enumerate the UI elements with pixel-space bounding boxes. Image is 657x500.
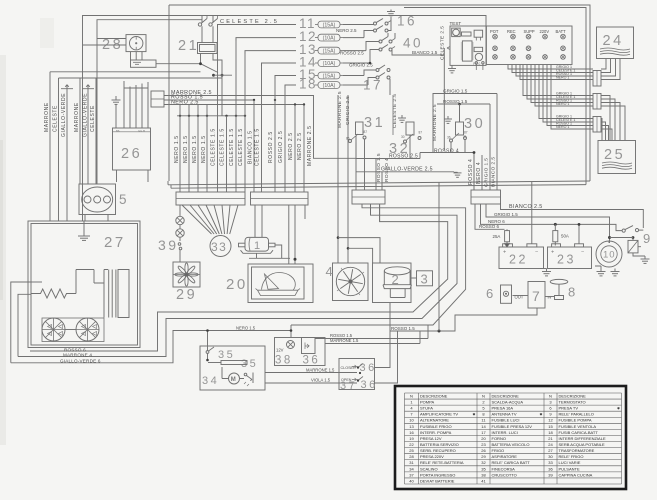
relay 21 contacts: [198, 23, 201, 26]
svg-text:CELESTE 1.5: CELESTE 1.5: [211, 128, 217, 166]
svg-text:+: +: [551, 250, 554, 256]
relay 9 switch: [622, 229, 625, 232]
socket 5: [79, 184, 116, 215]
svg-text:RELE' FRIGO: RELE' FRIGO: [559, 454, 584, 459]
box 27 outer: [28, 221, 140, 348]
wires relays to strip S3: [356, 139, 382, 190]
svg-text:GG B: GG B: [138, 129, 145, 133]
svg-text:37: 37: [340, 380, 357, 392]
svg-text:RELE' PARALLELO: RELE' PARALLELO: [559, 412, 594, 417]
connector strip S1: [176, 192, 245, 205]
svg-text:BIANCO 2.5: BIANCO 2.5: [491, 157, 497, 187]
socket 28 outline: [126, 35, 146, 52]
svg-text:10: 10: [409, 418, 414, 423]
svg-text:(10A): (10A): [323, 35, 336, 41]
svg-text:GIALLO-VERDE: GIALLO-VERDE: [83, 93, 89, 137]
TEST panel innards: [452, 28, 461, 36]
svg-text:12: 12: [548, 418, 553, 423]
svg-text:27: 27: [548, 448, 553, 453]
svg-text:FUSIBILE LUCI: FUSIBILE LUCI: [492, 418, 520, 423]
scan artifacts background: [0, 55, 6, 445]
bridge rectifier 2: [76, 318, 99, 341]
svg-text:18: 18: [299, 77, 317, 92]
svg-text:M: M: [231, 377, 236, 383]
svg-text:MARRONE: MARRONE: [44, 102, 50, 132]
wires relay30 area to strip S4: [481, 155, 483, 190]
connector T-bars left columns: [61, 85, 73, 89]
svg-text:FUSIBILE POMPA: FUSIBILE POMPA: [559, 418, 592, 423]
svg-text:33: 33: [211, 240, 227, 254]
wire relay30 down: [451, 140, 465, 153]
svg-text:INTERR. POMPA: INTERR. POMPA: [420, 430, 452, 435]
svg-text:(10A): (10A): [323, 61, 336, 67]
svg-text:DESCRIZIONE: DESCRIZIONE: [559, 393, 587, 398]
svg-text:NERO 1.5: NERO 1.5: [201, 135, 207, 163]
svg-text:50A: 50A: [561, 234, 569, 239]
component 2 boiler: [384, 267, 410, 275]
showerhead 8: [550, 279, 568, 284]
svg-text:FINECORSA: FINECORSA: [492, 466, 516, 471]
svg-text:SERB ACQUA POTABILE: SERB ACQUA POTABILE: [559, 442, 605, 447]
svg-text:ROSSO 1.5: ROSSO 1.5: [443, 99, 468, 104]
svg-text:39: 39: [548, 472, 553, 477]
svg-text:FUSIBILE PRESA 12V: FUSIBILE PRESA 12V: [492, 424, 533, 429]
wire fuse13 to sw40: [343, 42, 379, 51]
wire frame bottom inner: [168, 181, 590, 188]
connector strip S4: [471, 190, 501, 204]
box 3: [417, 271, 433, 286]
svg-text:PRESA 16A: PRESA 16A: [492, 406, 514, 411]
svg-text:PRESA 220V: PRESA 220V: [420, 454, 444, 459]
svg-text:+: +: [503, 250, 506, 256]
switch 40: [379, 40, 382, 43]
wires box37 right: [375, 303, 391, 368]
svg-text:16: 16: [397, 14, 417, 29]
svg-text:CELESTE 1.5: CELESTE 1.5: [220, 128, 226, 166]
switch 34 right: [244, 373, 247, 376]
svg-text:31: 31: [409, 460, 414, 465]
box 24: [597, 27, 634, 59]
connector group 1: [593, 71, 601, 87]
svg-text:BATTERIA VEICOLO: BATTERIA VEICOLO: [492, 442, 530, 447]
box 20 forno: [248, 264, 313, 303]
svg-text:2: 2: [392, 272, 402, 287]
wire left top bus y=78: [59, 77, 223, 79]
svg-text:DESCRIZIONE: DESCRIZIONE: [420, 393, 448, 398]
svg-text:BIANCO 1.5: BIANCO 1.5: [248, 130, 254, 164]
svg-text:220V: 220V: [540, 29, 550, 34]
ground giallo-verde: [457, 171, 459, 174]
component 1 tray: [241, 250, 274, 253]
wire mains left outer: [83, 16, 487, 222]
box 4 fan: [333, 263, 369, 301]
wires panel to connector groups: [508, 65, 593, 70]
svg-text:LUCI VARIE: LUCI VARIE: [559, 460, 581, 465]
wire battery22 right up: [531, 182, 533, 244]
svg-text:38: 38: [481, 472, 486, 477]
terminal panel screws: [493, 34, 498, 39]
wires to cylinder 2 enclosure: [337, 236, 340, 239]
svg-text:23: 23: [481, 442, 486, 447]
svg-text:VIOLA 1.5: VIOLA 1.5: [311, 377, 331, 382]
wires S2 drop group: [304, 205, 306, 219]
switch arrows in 37: [352, 365, 357, 368]
svg-text:20: 20: [226, 276, 248, 293]
svg-text:8: 8: [568, 285, 578, 300]
svg-text:N: N: [410, 393, 413, 398]
wire wrap inner diag: [291, 205, 466, 325]
svg-text:36: 36: [361, 379, 378, 391]
svg-text:NERO 1.5: NERO 1.5: [174, 135, 180, 163]
wires S2 to component 1: [255, 205, 262, 237]
svg-text:25A: 25A: [493, 234, 501, 239]
svg-text:GIALLO-VERDE: GIALLO-VERDE: [61, 93, 67, 137]
svg-text:BIANCO 1.5: BIANCO 1.5: [412, 50, 438, 55]
svg-text:RELE' CARICA BATT: RELE' CARICA BATT: [492, 460, 531, 465]
svg-text:25: 25: [604, 147, 625, 163]
svg-text:GRIGIO 2.5: GRIGIO 2.5: [349, 63, 373, 68]
svg-text:ALTERNATORE: ALTERNATORE: [420, 418, 449, 423]
svg-text:MARRONE 2.5: MARRONE 2.5: [307, 126, 313, 167]
svg-text:21: 21: [178, 38, 199, 54]
svg-text:22: 22: [409, 442, 414, 447]
svg-text:41: 41: [481, 478, 486, 483]
connector strip S3: [352, 190, 385, 204]
svg-text:34: 34: [409, 466, 414, 471]
socket 28 face: [130, 37, 143, 50]
svg-text:MARRONE: MARRONE: [74, 102, 80, 132]
svg-text:33: 33: [548, 460, 553, 465]
svg-text:GRIGIO 1.5: GRIGIO 1.5: [484, 158, 490, 187]
svg-text:31: 31: [364, 115, 385, 131]
svg-text:GIALLO-VERDE 6: GIALLO-VERDE 6: [60, 358, 101, 363]
svg-text:CRUSCOTTO: CRUSCOTTO: [492, 472, 517, 477]
battery 22: [499, 247, 544, 269]
fuse 50A: [553, 231, 558, 242]
svg-text:BIANCO 2.5: BIANCO 2.5: [509, 204, 543, 210]
legend table frame: [395, 386, 626, 489]
bridge rectifier 1: [42, 318, 65, 341]
connector strip S2: [251, 192, 309, 205]
svg-text:B6: B6: [116, 129, 120, 133]
svg-text:23: 23: [557, 253, 576, 267]
connector 3pole: [151, 91, 164, 107]
ground above 26: [115, 96, 117, 100]
svg-text:FUSIBILE VENTOLA: FUSIBILE VENTOLA: [559, 424, 597, 429]
svg-text:1: 1: [254, 240, 260, 252]
svg-text:DESCRIZIONE: DESCRIZIONE: [492, 393, 520, 398]
svg-text:29: 29: [481, 454, 486, 459]
ground relay 9: [644, 256, 646, 259]
connector group 2: [593, 94, 601, 110]
svg-text:SERB. RECUPERO: SERB. RECUPERO: [420, 448, 456, 453]
svg-text:36: 36: [303, 355, 321, 367]
wire bundle verticals: [179, 105, 181, 193]
svg-text:BATT: BATT: [556, 29, 567, 34]
svg-text:34: 34: [202, 375, 219, 387]
wire feed y104.5: [164, 104, 304, 106]
box 26: [113, 128, 151, 170]
box 34 35: [200, 346, 265, 390]
svg-text:18: 18: [548, 430, 553, 435]
svg-text:MARRONE 2.5: MARRONE 2.5: [432, 104, 438, 141]
fuse 14 (10A): [318, 60, 340, 67]
wire sw17 down: [389, 79, 391, 95]
relay 21 switch wire: [201, 54, 219, 73]
svg-text:26: 26: [121, 146, 142, 162]
svg-text:ROSSO 6: ROSSO 6: [479, 224, 500, 229]
svg-text:(15A): (15A): [323, 48, 336, 54]
ground switch 16: [390, 10, 392, 12]
wires box 26 top: [123, 88, 125, 128]
svg-text:36: 36: [447, 136, 451, 140]
svg-text:ROSSO 2.5: ROSSO 2.5: [340, 51, 364, 56]
svg-text:27: 27: [104, 234, 126, 251]
wire socket28 shelf right: [156, 63, 201, 65]
svg-text:CELESTE 1.5: CELESTE 1.5: [255, 128, 261, 166]
wire left top bus y=71.8: [50, 71, 201, 73]
box 38 36: [275, 338, 326, 366]
svg-text:MARRONE 1.5: MARRONE 1.5: [306, 367, 335, 372]
svg-text:21: 21: [548, 436, 553, 441]
svg-text:FRIGO: FRIGO: [492, 448, 505, 453]
svg-text:22: 22: [509, 253, 528, 267]
svg-text:ASPIRATORE: ASPIRATORE: [492, 454, 518, 459]
svg-text:CELESTE 1.5: CELESTE 1.5: [229, 128, 235, 166]
svg-text:STUFA: STUFA: [420, 406, 433, 411]
svg-text:BATTERIA SERVIZIO: BATTERIA SERVIZIO: [420, 442, 459, 447]
svg-text:(15A): (15A): [323, 22, 336, 28]
fuse 18 (10A): [318, 82, 340, 89]
wires fanout to 33: [182, 205, 212, 234]
svg-text:NERO 2.5: NERO 2.5: [297, 132, 303, 160]
svg-text:NERO 4: NERO 4: [476, 162, 482, 184]
svg-text:38: 38: [275, 355, 293, 367]
wire top outer y=5: [169, 5, 590, 181]
svg-text:28: 28: [409, 454, 414, 459]
svg-text:6: 6: [486, 286, 496, 301]
svg-text:AMPLIFICATORE TV: AMPLIFICATORE TV: [420, 412, 458, 417]
wire box34 top: [207, 331, 209, 351]
svg-text:GRIGIO 1.5: GRIGIO 1.5: [494, 212, 518, 217]
bar 35: [221, 361, 247, 365]
wire feed y100: [164, 99, 254, 101]
svg-text:30: 30: [464, 116, 485, 132]
relay 9 coil: [628, 240, 638, 253]
wires rectifiers: [65, 329, 76, 331]
structure in 27: [76, 270, 108, 318]
svg-text:35: 35: [241, 358, 258, 370]
svg-text:37: 37: [409, 472, 414, 477]
wire 7 bottom: [390, 308, 537, 331]
switch 16: [374, 22, 377, 25]
svg-text:15: 15: [548, 424, 553, 429]
svg-text:FUSIB CARICA-BATT: FUSIB CARICA-BATT: [559, 430, 599, 435]
svg-text:NERO 1.5: NERO 1.5: [183, 135, 189, 163]
lamp symbols 39: [176, 216, 184, 224]
terminal panel box: [486, 26, 572, 65]
svg-text:10: 10: [603, 250, 615, 261]
svg-text:ROSSO 4: ROSSO 4: [468, 159, 474, 185]
svg-text:GRIGIO 1.5: GRIGIO 1.5: [443, 89, 468, 94]
svg-text:SCALINO: SCALINO: [420, 466, 438, 471]
svg-text:14: 14: [481, 424, 486, 429]
svg-text:SCALDA-ACQUA: SCALDA-ACQUA: [492, 400, 524, 405]
forno icon: [256, 289, 301, 296]
rectifier box in 27: [42, 318, 104, 342]
svg-text:4: 4: [326, 264, 336, 279]
ground in 27: [83, 228, 85, 236]
ground battery 23: [600, 269, 602, 272]
fuse 11 (15A): [318, 21, 340, 28]
svg-text:DEVIAT BATTERIE: DEVIAT BATTERIE: [420, 478, 455, 483]
svg-text:CELESTE: CELESTE: [53, 105, 59, 132]
svg-text:36: 36: [548, 466, 553, 471]
battery 23: [548, 247, 592, 269]
motor M 34: [229, 373, 240, 384]
svg-text:CAPPINA CUCINA: CAPPINA CUCINA: [559, 472, 593, 477]
left wire columns: [49, 72, 51, 221]
svg-text:POT: POT: [490, 29, 499, 34]
svg-text:39: 39: [158, 237, 179, 253]
wire socket28 left: [97, 38, 126, 40]
box 37 36: [339, 359, 375, 390]
svg-text:CELESTE 1.5: CELESTE 1.5: [238, 128, 244, 166]
box 25: [598, 141, 636, 174]
svg-text:9: 9: [643, 231, 653, 246]
wire sw40 right BIANCO: [392, 48, 444, 150]
svg-text:PULSANTE: PULSANTE: [559, 466, 580, 471]
svg-text:12V: 12V: [276, 348, 284, 353]
legend table grid: [404, 393, 406, 484]
switch 17: [376, 69, 379, 72]
svg-text:TERMOSTATO: TERMOSTATO: [559, 400, 586, 405]
svg-text:(15A): (15A): [323, 73, 336, 79]
svg-text:26: 26: [481, 448, 486, 453]
svg-text:87: 87: [419, 131, 423, 135]
svg-text:86: 86: [346, 137, 350, 141]
svg-text:N: N: [549, 393, 552, 398]
relay 32: [401, 115, 403, 118]
svg-text:REC: REC: [507, 29, 516, 34]
cylinder 2 enclosure: [373, 263, 412, 303]
svg-text:16: 16: [409, 430, 414, 435]
svg-text:13: 13: [409, 424, 414, 429]
svg-text:RELE' RETE-BATTERIA: RELE' RETE-BATTERIA: [420, 460, 464, 465]
socket 28 shelf: [131, 60, 157, 67]
wire fuse11 to sw16: [343, 24, 374, 26]
svg-text:35: 35: [481, 466, 486, 471]
box 25 squiggles: [602, 162, 632, 164]
connector 33: [210, 236, 231, 257]
svg-text:ROSSO 4: ROSSO 4: [434, 148, 459, 154]
svg-text:TRASFORMATORE: TRASFORMATORE: [559, 448, 595, 453]
svg-text:MARRONE 4: MARRONE 4: [63, 352, 92, 357]
fuse 25A: [505, 231, 510, 242]
svg-text:32: 32: [481, 460, 486, 465]
svg-text:FUSIBILE FRIGO: FUSIBILE FRIGO: [420, 424, 452, 429]
svg-text:NERO 1: NERO 1: [556, 125, 569, 129]
svg-text:ANTENNA TV: ANTENNA TV: [492, 412, 517, 417]
svg-text:40: 40: [403, 36, 423, 51]
TEST panel box: [450, 26, 486, 65]
svg-text:TEST: TEST: [450, 21, 462, 26]
wire box38 top: [290, 325, 292, 338]
svg-text:25: 25: [409, 448, 414, 453]
resistor in 27: [31, 289, 76, 298]
svg-text:30: 30: [548, 454, 553, 459]
wire wrap MARRONE4 loop: [18, 205, 457, 357]
relay 31: [356, 122, 364, 135]
svg-text:NERO 2.5: NERO 2.5: [336, 28, 357, 33]
wire wrap ROSSO6 loop: [30, 205, 448, 351]
ground battery 22: [546, 269, 548, 272]
fan 29: [173, 262, 200, 287]
fuse 15 (15A): [318, 72, 340, 79]
svg-text:40: 40: [409, 478, 414, 483]
svg-text:PRESA TV: PRESA TV: [559, 406, 579, 411]
svg-text:35: 35: [218, 349, 235, 361]
wires socket5 bottom to 27: [85, 215, 108, 222]
svg-text:CELESTE 2.5: CELESTE 2.5: [440, 26, 446, 60]
svg-text:GRIGIO 2.5: GRIGIO 2.5: [278, 131, 284, 163]
fuse 13 (15A): [318, 47, 340, 54]
svg-text:7: 7: [532, 288, 542, 304]
svg-text:SUPP: SUPP: [524, 29, 535, 34]
connector group 3: [593, 117, 601, 133]
svg-text:NERO 1: NERO 1: [556, 102, 569, 106]
box 24 squiggles: [600, 48, 630, 50]
wire top inner y=7: [404, 8, 586, 185]
svg-text:24: 24: [603, 33, 624, 49]
component 1 boiler: [245, 237, 269, 251]
box 7 pompa: [528, 282, 545, 309]
wire mains left inner: [97, 20, 202, 185]
relay 21 coil: [198, 43, 218, 54]
svg-text:5: 5: [119, 192, 129, 207]
svg-text:(10A): (10A): [323, 83, 336, 89]
svg-text:24: 24: [548, 442, 553, 447]
svg-text:CELESTE 2.5: CELESTE 2.5: [220, 19, 279, 25]
wires group2/3 to box 25: [601, 96, 610, 141]
svg-text:PORTA INGRESSO: PORTA INGRESSO: [420, 472, 455, 477]
wire feed MARRONE y95.5 wrap: [164, 96, 356, 159]
wire fuse15 to sw17: [343, 70, 376, 85]
svg-text:29: 29: [176, 287, 197, 303]
lamp 10: [596, 241, 622, 267]
svg-text:30: 30: [401, 135, 405, 139]
svg-text:FORNO: FORNO: [492, 436, 506, 441]
svg-text:17: 17: [363, 78, 383, 93]
svg-text:20: 20: [481, 436, 486, 441]
svg-text:3: 3: [421, 272, 431, 287]
svg-text:POMPA: POMPA: [420, 400, 434, 405]
wires group1 to box 24: [601, 59, 606, 70]
svg-text:INTERR. LUCI: INTERR. LUCI: [492, 430, 518, 435]
svg-text:PRESA 12V: PRESA 12V: [420, 436, 442, 441]
svg-text:CELESTE: CELESTE: [90, 105, 96, 132]
relay 30: [447, 116, 449, 119]
svg-text:19: 19: [409, 436, 414, 441]
svg-text:−: −: [535, 250, 538, 256]
svg-text:ROSSO 2.5: ROSSO 2.5: [268, 131, 274, 163]
svg-text:ROSSO 1.5: ROSSO 1.5: [391, 326, 415, 331]
svg-text:NERO 2.5: NERO 2.5: [288, 132, 294, 160]
svg-text:NERO 1: NERO 1: [556, 76, 569, 80]
svg-text:−: −: [581, 250, 584, 256]
svg-text:NERO 1.5: NERO 1.5: [192, 135, 198, 163]
wire bundle top bus: [177, 115, 245, 117]
